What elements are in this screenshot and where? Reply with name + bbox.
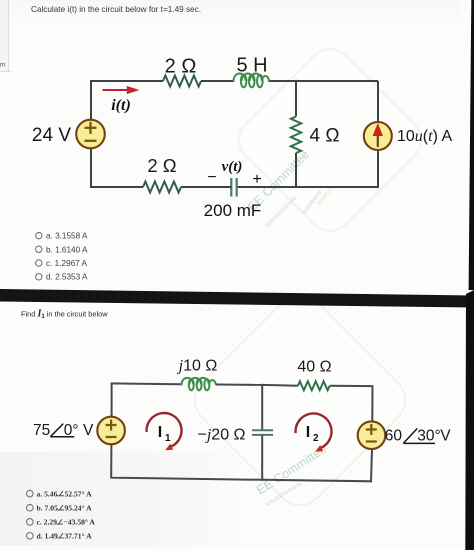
svg-text:V: V [83,422,94,439]
label I1 [158,424,171,444]
node B (bottom junction) [295,186,297,188]
current source I1 10u(t)A [364,122,392,150]
wire: node A to current source branch [296,80,378,82]
label 40 ohm [297,359,331,376]
svg-text:i(t): i(t) [111,97,131,114]
svg-text:24 V: 24 V [32,125,71,146]
label 75 angle 0 V [33,422,94,439]
wire: node C to R 40ohm [262,384,298,387]
svg-text:40 Ω: 40 Ω [297,359,331,376]
wire: top-left segment (V1 top node to R1) [91,81,163,120]
watermark diamond 1 [230,40,430,240]
svg-text:a. 5.46: a. 5.46 [37,489,58,498]
svg-text:j10 Ω: j10 Ω [177,358,218,375]
svg-text:−j20 Ω: −j20 Ω [198,427,246,444]
svg-text:52.57° A: 52.57° A [65,489,93,498]
mesh current arrow I2 [296,413,332,451]
label j10 ohm [177,358,218,375]
title problem 1 [31,5,201,14]
svg-text:+: + [252,171,261,188]
capacitor C2 -j20ohm [252,430,273,435]
wire: 4ohm branch bottom [295,153,297,187]
wire: capacitor branch top [261,385,263,431]
svg-text:d. 1.49: d. 1.49 [37,532,59,541]
option 2c [27,518,96,527]
option 1d [36,273,88,282]
label 60 angle 30 V [385,428,452,445]
wire: bottom-left segment [91,149,143,188]
black separator band [0,289,474,308]
svg-text:a. 3.1558 A: a. 3.1558 A [46,232,88,241]
label i(t) [111,97,131,114]
svg-text:b. 1.6140 A: b. 1.6140 A [46,245,88,254]
svg-text:c. 2.29: c. 2.29 [37,518,58,527]
options problem 1 [36,232,88,282]
inductor L2 j10ohm [181,378,216,390]
resistor R3 4ohm (middle branch) [291,117,301,154]
watermark text 1 [245,147,312,231]
inductor L1 5H [233,73,270,87]
svg-text:75: 75 [33,422,50,439]
option 2b [27,503,93,512]
options problem 2 [27,489,96,540]
wire: c2 top-left segment [112,383,181,416]
svg-text:30°: 30° [417,428,440,445]
option 2d [27,532,93,541]
svg-text:d. 2.5353 A: d. 2.5353 A [46,273,88,282]
option 1c [36,259,88,268]
svg-text:37.71° A: 37.71° A [65,532,93,541]
mesh current arrow I1 [147,413,182,450]
resistor R2 2ohm (bottom) [143,182,181,193]
title problem 2 [21,309,108,321]
resistor R1 2ohm (top) [163,76,201,87]
label v(t) [222,159,243,175]
label 24 V [32,125,71,146]
label plus sign [252,171,261,188]
svg-text:5 H: 5 H [236,55,267,77]
label 4ohm [310,126,340,147]
node C junction [261,384,263,386]
watermark diamond 2 [185,285,415,515]
label R1 2ohm [165,56,197,78]
svg-text:m: m [0,62,5,69]
wire: right branch bottom [296,151,378,187]
resistor R4 40ohm [298,381,330,390]
node D junction [261,479,263,481]
wire: capacitor to R2 [181,186,231,188]
right black bar [469,0,474,290]
label 10u(t) A [397,128,452,145]
watermark text 2 [254,442,329,511]
option 1a [36,232,88,241]
svg-text:4 Ω: 4 Ω [310,126,340,147]
svg-text:2 Ω: 2 Ω [165,56,197,78]
current arrow i(t) [103,86,140,94]
svg-text:b. 7.05: b. 7.05 [37,503,59,512]
watermark arabic marks 1 [299,183,338,218]
voltage source V3 60/30V [358,421,386,449]
wire: L2 to node C [216,384,263,386]
wire: right branch bottom [262,449,372,481]
sidebar fragment [0,62,5,69]
svg-text:10u(t) A: 10u(t) A [397,128,452,145]
svg-text:V: V [440,428,451,445]
svg-text:Find I1 in the circuit below: Find I1 in the circuit below [21,309,108,321]
voltage source V1 24V [76,120,105,149]
label minus sign [207,169,216,186]
wire: node B to capacitor C1 [237,186,296,188]
svg-text:c. 1.2967 A: c. 1.2967 A [46,259,88,268]
capacitor C1 200mF [231,178,236,197]
option 2a [27,489,93,498]
svg-text:I: I [306,424,310,441]
svg-text:60: 60 [385,428,403,445]
wire: R4 to right branch top [330,386,373,421]
wire: right branch top (to current source) [377,81,379,121]
svg-text:95.24° A: 95.24° A [65,503,93,512]
svg-text:200 mF: 200 mF [204,201,262,220]
label R2 2ohm [147,155,176,176]
svg-text:v(t): v(t) [222,159,243,175]
svg-text:2 Ω: 2 Ω [147,155,176,176]
right black bar lower [465,290,474,550]
wire: c2 bottom-left segment [111,444,262,479]
svg-text:−: − [207,169,216,186]
wire: R1 to L1 [201,80,233,82]
wire: capacitor branch bottom [261,435,263,480]
option 1b [36,245,88,254]
svg-text:Calculate i(t) in the circuit: Calculate i(t) in the circuit below for … [31,5,201,14]
wire: 4ohm branch top [295,81,297,117]
svg-text:2: 2 [313,433,319,444]
wire: L1 to node A [270,80,296,82]
svg-text:0°: 0° [64,422,79,439]
label I2 [306,424,319,444]
label L1 5H [236,55,267,77]
svg-text:I: I [158,424,162,441]
label -j20 ohm [198,427,246,444]
voltage source V2 75V [97,417,125,445]
svg-text:−43.58° A: −43.58° A [64,518,96,527]
label 200 mF [204,201,262,220]
svg-text:1: 1 [165,433,171,444]
node A (top junction) [295,80,297,82]
